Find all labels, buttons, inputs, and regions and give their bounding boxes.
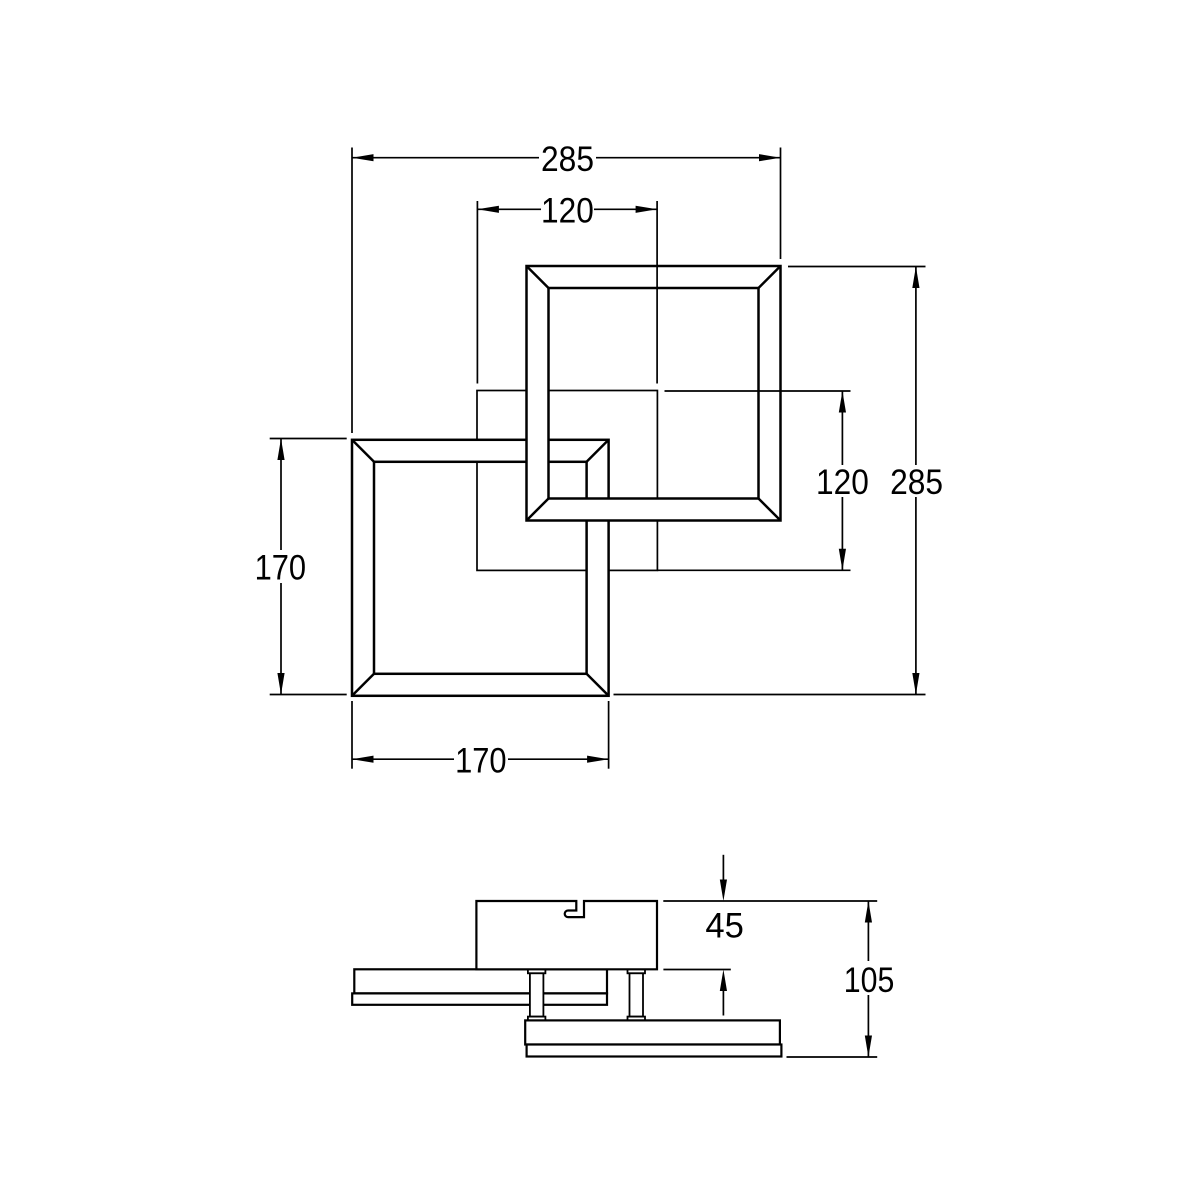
svg-text:120: 120	[816, 463, 869, 502]
svg-text:170: 170	[455, 741, 507, 780]
svg-text:285: 285	[890, 463, 943, 502]
svg-text:45: 45	[705, 907, 744, 946]
svg-text:170: 170	[255, 549, 307, 588]
svg-text:285: 285	[541, 140, 594, 179]
svg-text:120: 120	[541, 192, 594, 231]
svg-text:105: 105	[844, 961, 895, 1000]
